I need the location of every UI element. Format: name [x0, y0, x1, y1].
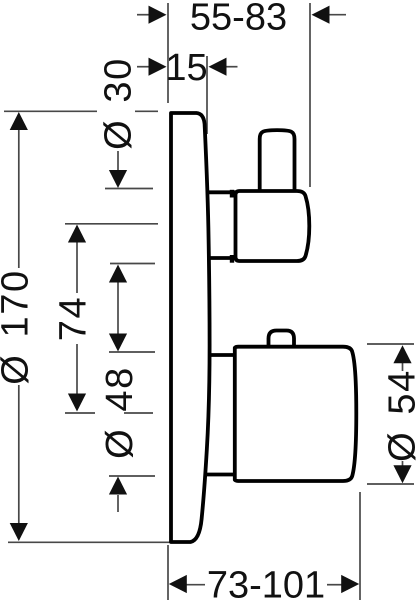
arrow 15 right (points left): [209, 58, 227, 76]
arrow 15 left (points right): [149, 58, 167, 76]
dimension tail 55-83 right: [329, 14, 346, 16]
arrow 74 bottom (points down): [68, 394, 86, 412]
arrow Ø30 top (points down): [109, 170, 127, 188]
upper sleeve corner nub bottom: [230, 255, 234, 263]
arrow Ø54 bottom (points down): [393, 465, 411, 483]
svg-text:73-101: 73-101: [207, 564, 325, 600]
extension line plate-bottom (Ø170): [8, 541, 172, 543]
arrow Ø170 top (points up): [10, 112, 28, 130]
extension line lower axis segment a (74 bottom): [65, 412, 95, 414]
dimension line 73-101 right segment: [327, 584, 342, 586]
svg-text:Ø 170: Ø 170: [0, 269, 37, 385]
lower sleeve: [196, 355, 239, 475]
dimension line Ø54 upper segment: [402, 361, 404, 371]
extension line plate-top right segment: [135, 110, 158, 112]
extension line plate-top left segment: [4, 110, 97, 112]
arrow 55-83 left (points right): [149, 6, 167, 24]
arrow Ø170 bottom (points down): [10, 523, 28, 541]
arrow 73-101 right (points right): [341, 575, 359, 593]
dimension tail 15 right: [226, 66, 238, 68]
extension line upper axis (74 top): [65, 223, 158, 225]
dimension line 74 lower segment: [76, 344, 78, 395]
upper sleeve corner nub top: [230, 190, 234, 198]
dimension tail 55-83 left: [137, 14, 149, 16]
dimension line Ø30 upper segment: [117, 151, 119, 172]
dimension line Ø170 lower segment: [18, 385, 20, 525]
extension line wall face (left of 55-83 and 15): [167, 3, 169, 103]
svg-text:Ø 30: Ø 30: [98, 57, 140, 150]
escutcheon plate (side view): [171, 113, 210, 542]
extension line lower axis segment b (74 bottom): [124, 412, 153, 414]
dimension line 73-101 left segment: [186, 584, 205, 586]
dimension line Ø54 lower segment: [402, 461, 404, 467]
extension line upper body top (Ø30): [105, 188, 153, 190]
arrow Ø30 bottom (points up): [109, 265, 127, 283]
arrow 74 top (points up): [68, 225, 86, 243]
dimension line 74 upper segment: [76, 240, 78, 293]
arrow 55-83 right (points left): [312, 6, 330, 24]
upper stem: [260, 130, 295, 196]
extension line lower body top (Ø54): [367, 343, 414, 345]
dimension line between Ø30 and Ø48 arrows: [117, 280, 119, 336]
arrow Ø48 top (points down): [109, 334, 127, 352]
lower knob tab: [269, 331, 295, 351]
svg-text:15: 15: [165, 47, 207, 89]
svg-text:55-83: 55-83: [190, 0, 287, 39]
dimension line Ø170 upper segment: [18, 128, 20, 268]
arrow Ø48 bottom (points up): [109, 477, 127, 495]
lower handle body: [235, 347, 356, 481]
extension line lower body bottom (Ø54): [367, 483, 414, 485]
upper handle body: [236, 191, 310, 261]
dimension tail 15 left: [137, 66, 149, 68]
extension line plate rear (right of 15): [206, 56, 208, 134]
extension line upper body bottom (Ø30): [110, 263, 155, 265]
dimension tail below Ø48 bottom arrow: [117, 495, 119, 512]
extension line lower sleeve top (Ø48): [109, 351, 155, 353]
extension line handle end (right of 55-83): [309, 3, 311, 187]
extension line lower sleeve bottom (Ø48): [109, 475, 155, 477]
arrow Ø54 top (points up): [393, 345, 411, 363]
extension line wall face below plate (73-101 left): [167, 545, 169, 600]
extension line lower handle end (73-101 right): [359, 492, 361, 600]
upper sleeve: [196, 192, 238, 258]
svg-text:74: 74: [53, 296, 95, 341]
arrow 73-101 left (points left): [169, 575, 187, 593]
svg-text:Ø 54: Ø 54: [382, 369, 418, 462]
svg-text:Ø 48: Ø 48: [99, 366, 141, 459]
